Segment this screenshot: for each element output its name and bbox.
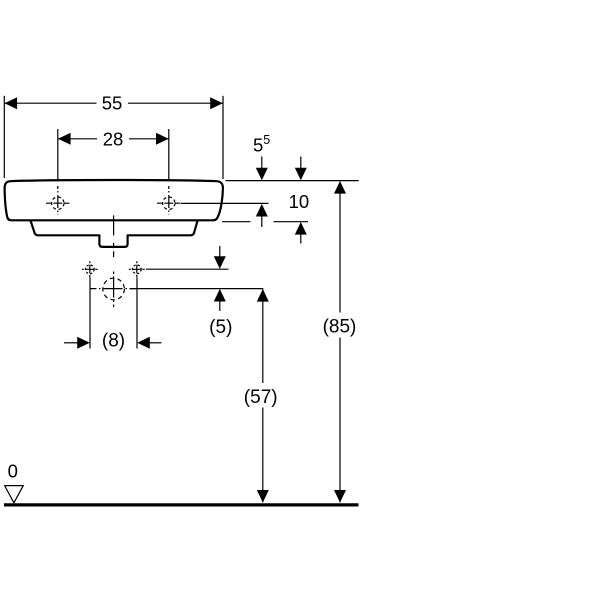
basin outline (bowl front view) xyxy=(5,180,223,220)
reference line bowl bottom level extended (for 10) xyxy=(222,221,308,223)
dimension 8 xyxy=(64,278,162,349)
water supply cross left xyxy=(82,261,98,277)
dimension 57 xyxy=(257,289,269,503)
svg-text:(5): (5) xyxy=(209,317,232,338)
dimension 5 arrows xyxy=(214,246,226,311)
dimension 10 arrows xyxy=(295,157,307,244)
dimension 28 xyxy=(58,129,169,180)
supply line extended (for 5) xyxy=(146,268,229,270)
basin apron and drain boss outline xyxy=(31,221,198,247)
dimension 85 xyxy=(334,181,346,503)
reference line tap hole level extended (for 5.5) xyxy=(181,202,269,204)
svg-text:5: 5 xyxy=(263,133,270,147)
svg-text:(8): (8) xyxy=(102,331,125,352)
datum level triangle xyxy=(5,486,24,503)
svg-text:10: 10 xyxy=(289,191,310,212)
svg-text:5: 5 xyxy=(253,134,263,155)
svg-text:(57): (57) xyxy=(244,387,278,408)
water supply cross right xyxy=(129,261,145,277)
svg-text:0: 0 xyxy=(8,460,18,481)
svg-text:28: 28 xyxy=(103,128,124,149)
trap / waste connection circle xyxy=(91,272,138,308)
trap line extended (for 5 and 57) xyxy=(130,288,263,290)
svg-text:(85): (85) xyxy=(323,317,357,338)
svg-text:55: 55 xyxy=(102,93,123,114)
dimension 5-5 arrows xyxy=(256,157,268,228)
dimension 55 xyxy=(4,96,223,179)
reference line top edge extended (for 5.5, 10, 85) xyxy=(226,180,359,182)
floor line xyxy=(4,503,359,506)
tap hole left xyxy=(46,186,70,215)
centerline of basin (vertical dash-dot) xyxy=(113,215,115,257)
tap hole right xyxy=(157,186,181,215)
